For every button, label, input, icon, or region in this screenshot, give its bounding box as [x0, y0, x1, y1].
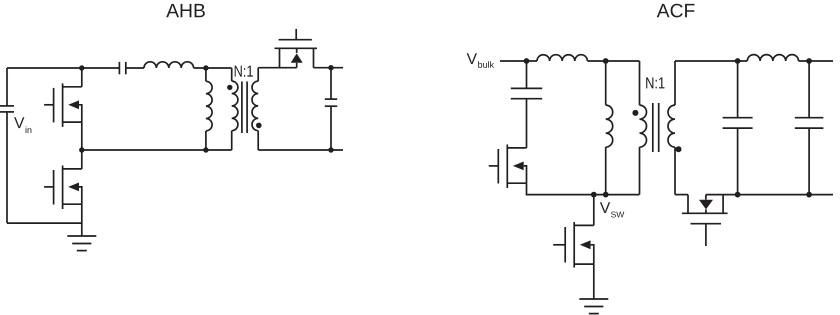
wire secondary top to Q3	[258, 67, 297, 69]
capacitor Cout2 ACF	[795, 61, 824, 195]
transistor Q3 sync rectifier	[275, 29, 318, 68]
wire output bottom rail	[258, 149, 343, 151]
transistor Q5 main switch	[553, 222, 594, 268]
capacitor Vin source	[0, 106, 14, 112]
wire Q6 to output bottom rail	[706, 194, 833, 196]
node Cout2 top junction	[806, 58, 812, 64]
capacitor Cout1 ACF	[723, 61, 753, 195]
wire Q2 drain to midpoint	[81, 150, 83, 169]
wire clamp junction to cap	[526, 61, 528, 88]
node half-bridge midpoint	[79, 147, 84, 152]
wire Vsw to Q5 drain	[593, 195, 595, 226]
transformer T1 core	[242, 82, 247, 134]
inductor Lm magnetizing	[206, 68, 212, 150]
label T1 ratio N:1	[235, 66, 253, 77]
wire output top rail right	[799, 60, 834, 62]
node Cout1 bottom junction	[735, 192, 741, 198]
node output bottom junction	[328, 147, 333, 152]
transformer T2 core	[653, 103, 659, 152]
capacitor Cclamp	[511, 88, 542, 98]
ground AHB	[67, 236, 96, 251]
transformer T2 secondary winding	[668, 61, 675, 195]
node Q1 drain junction	[79, 65, 84, 70]
wire left rail upper	[6, 68, 8, 106]
node Lm bottom junction	[203, 147, 208, 152]
inductor Lm2 magnetizing	[606, 61, 613, 195]
wire secondary to Q6	[675, 194, 688, 196]
label AHB title	[166, 4, 205, 17]
label Vin	[14, 117, 31, 133]
label ACF title	[657, 4, 695, 18]
inductor Lk series	[537, 55, 587, 61]
node Lm2 top junction	[603, 58, 609, 64]
node Lm top junction	[203, 65, 208, 70]
transformer T1 primary winding	[232, 68, 238, 150]
inductor Lout	[747, 55, 798, 61]
node T2 primary polarity dot	[632, 110, 638, 116]
wire cap to Q4 drain	[526, 99, 528, 148]
wire Q4 source to Vsw rail	[527, 183, 640, 194]
wire midpoint rail	[82, 149, 232, 151]
wire Q3 to output top	[314, 67, 344, 69]
wire bottom return to Q2 source	[7, 222, 82, 224]
label Vsw	[600, 202, 624, 217]
wire left rail lower	[6, 112, 8, 223]
node T1 primary polarity dot	[227, 85, 232, 90]
transformer T2 primary winding	[640, 61, 647, 195]
wire Q1 drain to top rail	[81, 68, 83, 87]
wire cap to inductor	[126, 67, 144, 69]
wire Q5 source to ground	[593, 264, 595, 299]
ground ACF main	[579, 299, 608, 314]
node T1 secondary polarity dot	[256, 123, 262, 129]
node Cout2 bottom junction	[806, 192, 812, 198]
wire Q2 source to ground	[81, 204, 83, 236]
wire output top rail	[675, 60, 747, 62]
node Cout1 top junction	[735, 58, 741, 64]
transformer T1 secondary winding	[252, 68, 258, 150]
node T2 secondary polarity dot	[676, 146, 682, 152]
wire Q1 source to midpoint	[81, 122, 83, 150]
label T2 ratio N:1	[646, 77, 664, 88]
transistor Q2	[44, 166, 82, 210]
wire top rail left segment	[7, 67, 119, 69]
node clamp branch junction	[524, 58, 530, 64]
wire Vbulk rail	[500, 60, 537, 62]
node Q5 drain junction	[591, 192, 597, 198]
capacitor Cout AHB	[325, 68, 337, 150]
capacitor Cr series	[119, 62, 125, 74]
transistor Q4 clamp	[489, 145, 527, 189]
transistor Q1	[44, 83, 82, 127]
wire inductor to primary	[587, 60, 639, 62]
node output top junction	[328, 65, 333, 70]
transistor Q6 sync rectifier	[682, 195, 728, 246]
inductor Lr series	[144, 62, 194, 68]
node Lm2 bottom junction	[603, 192, 609, 198]
label Vbulk	[467, 53, 494, 68]
wire inductor to Lm node	[194, 67, 232, 69]
